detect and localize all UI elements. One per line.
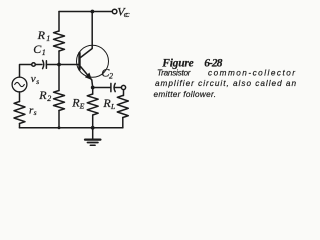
wire source to input terminal [20, 65, 32, 78]
capacitor C2 [111, 83, 115, 91]
node collector-rail junction [91, 10, 95, 14]
ground [92, 128, 94, 139]
svg-text:E: E [79, 101, 85, 110]
wire R2 top [58, 65, 60, 91]
resistor rs [14, 102, 25, 124]
svg-text:1: 1 [42, 48, 46, 57]
wire RE bottom [92, 115, 94, 128]
resistor R1 [54, 31, 65, 51]
svg-text:R: R [38, 88, 47, 102]
node Vcc terminal [112, 9, 117, 14]
wire emitter to C2 [93, 87, 111, 89]
node base junction [57, 63, 61, 67]
svg-text:CC: CC [124, 12, 131, 19]
resistor RL [117, 96, 128, 118]
svg-text:Transistor: Transistor [157, 69, 191, 78]
node R2-rail junction [58, 126, 61, 129]
wire R2 bottom [58, 111, 60, 128]
svg-text:R: R [37, 28, 46, 42]
svg-text:2: 2 [47, 94, 51, 103]
wire rs bottom [19, 124, 21, 128]
wire emitter down [91, 80, 94, 88]
wire output terminal to RL [122, 90, 125, 96]
node ground junction [91, 126, 95, 130]
wire R1 bottom [58, 51, 60, 65]
svg-text:v: v [31, 73, 36, 85]
resistor R2 [54, 91, 65, 111]
wire vs to rs [19, 92, 21, 102]
transistor Q1 circle [77, 45, 109, 77]
wire RE top [92, 88, 94, 95]
svg-text:1: 1 [46, 34, 50, 43]
svg-text:L: L [110, 102, 115, 111]
svg-text:common-collector: common-collector [208, 69, 295, 78]
svg-text:s: s [34, 108, 37, 117]
source vs [12, 77, 27, 92]
wire top supply rail [59, 11, 112, 13]
transistor Q1 emitter [81, 67, 92, 81]
wire R1 top [58, 12, 60, 32]
transistor Q1 emitter arrowhead [85, 73, 92, 81]
wire input terminal to C1 [35, 64, 42, 66]
node output terminal [121, 85, 125, 89]
svg-text:amplifier circuit, also called: amplifier circuit, also called an [155, 79, 296, 88]
svg-text:emitter follower.: emitter follower. [154, 90, 217, 99]
transistor Q1 collector [81, 12, 93, 58]
wire bottom ground rail [20, 127, 123, 129]
transistor Q1 base bar [78, 53, 80, 70]
capacitor C1 [43, 60, 47, 68]
wire C2 to output terminal [115, 87, 121, 89]
node input terminal [32, 63, 36, 67]
wire C1 to base [46, 64, 79, 66]
svg-text:s: s [36, 77, 39, 86]
wire RL bottom [122, 118, 124, 128]
resistor RE [87, 94, 98, 115]
node emitter junction [91, 86, 95, 90]
svg-text:2: 2 [109, 71, 113, 80]
